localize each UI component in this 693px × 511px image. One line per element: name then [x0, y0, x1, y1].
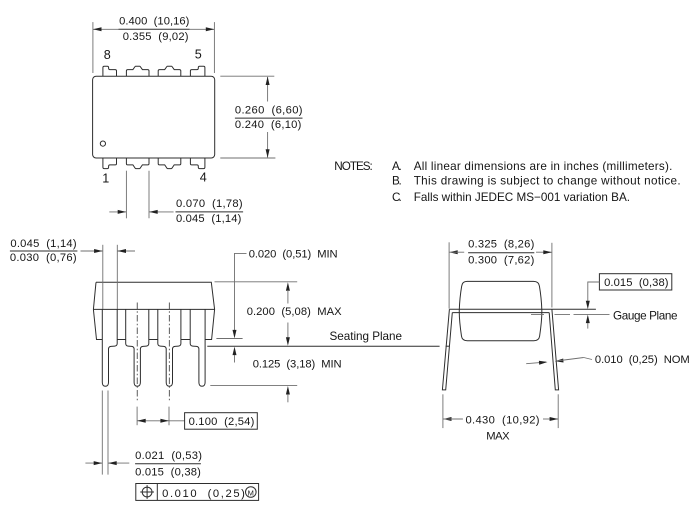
- svg-text:NOTES:: NOTES:: [334, 160, 373, 173]
- svg-text:This drawing is subject to cha: This drawing is subject to change withou…: [414, 175, 681, 188]
- svg-text:0.125 (3,18) MIN: 0.125 (3,18) MIN: [253, 359, 342, 371]
- dimension 0.325/0.300: right extension line: [551, 243, 553, 308]
- dimension 0.200 MAX: package top extension line: [215, 281, 298, 283]
- end view: left lead: [442, 309, 452, 390]
- dimension 0.021/0.015: left dimension line with arrowhead: [85, 462, 102, 464]
- seating plane line: [207, 345, 439, 347]
- dimension 0.400/0.355: right extension line: [213, 22, 215, 73]
- front view: package body outline: [93, 282, 214, 339]
- dimension 0.045/0.030: left dimension line with arrowhead: [81, 250, 103, 252]
- top view: pin-1 index circle: [100, 141, 105, 146]
- top view: pin 5 lead: [190, 66, 205, 76]
- svg-text:0.010 (0,25): 0.010 (0,25): [162, 488, 245, 500]
- dimension 0.430 MAX: left extension line: [442, 394, 444, 428]
- svg-text:1: 1: [102, 172, 109, 186]
- dimension 0.125 MIN: up arrowhead at lead tips: [286, 386, 290, 395]
- front view: body underside segments: [117, 339, 190, 341]
- seating plane tick on lead: [446, 345, 450, 347]
- svg-text:0.015 (0,38): 0.015 (0,38): [135, 466, 201, 478]
- svg-text:0.260 (6,60): 0.260 (6,60): [235, 105, 303, 117]
- dimension 0.200 MAX: up arrowhead with stem: [286, 282, 290, 291]
- front view: pin 3 lead: [158, 309, 181, 386]
- top view: pin 3 lead: [158, 158, 181, 169]
- svg-text:M: M: [248, 488, 254, 497]
- svg-text:4: 4: [200, 170, 207, 184]
- svg-text:Seating Plane: Seating Plane: [330, 330, 403, 343]
- front view: pin 4 lead: [190, 309, 205, 386]
- end view: lead frame bottom line: [452, 312, 549, 314]
- dimension 0.325/0.300: right dimension line with arrowhead: [536, 251, 552, 253]
- svg-text:0.200 (5,08) MAX: 0.200 (5,08) MAX: [247, 306, 342, 318]
- front view: pin 2 lead: [126, 309, 149, 386]
- dimension 0.400/0.355: left arrowhead: [93, 27, 102, 31]
- dimension 0.430 MAX: right extension line: [557, 394, 559, 428]
- dimension 0.260/0.240: top extension line: [220, 75, 274, 77]
- svg-text:0.355 (9,02): 0.355 (9,02): [123, 31, 189, 43]
- end view: right lead: [549, 309, 558, 390]
- top view: pin 2 lead: [126, 158, 149, 169]
- dimension 0.325/0.300: left extension line: [448, 242, 450, 308]
- dimension 0.070/0.045: left dimension line with arrowhead: [109, 211, 126, 213]
- dimension 0.260/0.240: up arrowhead: [266, 77, 270, 86]
- svg-text:0.430 (10,92): 0.430 (10,92): [466, 415, 540, 427]
- front view: pin 3 centerline: [168, 303, 170, 403]
- dimension 0.070/0.045: right extension line: [148, 171, 150, 219]
- dimension 0.400/0.355: right arrowhead: [206, 27, 215, 31]
- svg-text:0.045 (1,14): 0.045 (1,14): [10, 238, 76, 250]
- dimension 0.021/0.015: right extension line: [107, 391, 109, 475]
- svg-text:All linear dimensions are in i: All linear dimensions are in inches (mil…: [414, 160, 673, 173]
- dimension 0.070/0.045: fraction bar: [176, 211, 244, 213]
- top view: pin 1 lead: [103, 158, 117, 169]
- feature control frame: cell divider: [156, 484, 158, 501]
- dimension 0.100: dimension line with outward arrowheads: [137, 420, 184, 422]
- dimension 0.260/0.240: upper dimension line: [267, 77, 269, 102]
- dimension 0.045/0.030: fraction bar: [10, 250, 78, 252]
- dimension 0.010 NOM: inner arrowhead and leader: [555, 359, 564, 363]
- svg-text:0.015 (0,38): 0.015 (0,38): [604, 277, 669, 289]
- feature control frame: M modifier circle: [246, 487, 257, 498]
- svg-text:0.010 (0,25) NOM: 0.010 (0,25) NOM: [595, 354, 690, 366]
- dimension 0.125 MIN: lead tip extension line: [210, 384, 297, 386]
- dimension 0.100: pin 3 extension line: [168, 407, 170, 426]
- svg-text:A.: A.: [392, 160, 402, 173]
- dimension 0.020 MIN: body underside extension line: [216, 338, 242, 340]
- svg-text:C.: C.: [392, 191, 402, 204]
- dimension 0.325/0.300: fraction bar: [468, 252, 534, 254]
- svg-text:0.300 (7,62): 0.300 (7,62): [468, 254, 534, 266]
- dimension 0.260/0.240: fraction bar: [235, 117, 303, 119]
- dimension 0.260/0.240: down arrowhead: [266, 149, 270, 158]
- feature control frame: true position symbol: [142, 487, 152, 497]
- dimension 0.010 NOM: outer arrowhead and leader: [526, 362, 546, 364]
- svg-text:0.030 (0,76): 0.030 (0,76): [10, 252, 77, 264]
- svg-text:Gauge Plane: Gauge Plane: [613, 310, 678, 323]
- front view: pin 1 lead: [102, 309, 117, 386]
- svg-text:0.020 (0,51) MIN: 0.020 (0,51) MIN: [249, 249, 338, 261]
- dimension 0.021/0.015: fraction bar: [135, 463, 201, 465]
- svg-text:0.240 (6,10): 0.240 (6,10): [235, 119, 302, 131]
- dimension 0.015: boxed text frame: [599, 274, 671, 290]
- front view: pin 2 centerline: [136, 303, 138, 403]
- end view: package body outline: [459, 281, 542, 340]
- top view: package body outline: [93, 76, 215, 158]
- dimension 0.100: boxed text frame: [185, 413, 258, 430]
- dimension 0.045/0.030: right dimension line with arrowhead: [118, 250, 136, 252]
- svg-text:0.400 (10,16): 0.400 (10,16): [119, 15, 190, 27]
- dimension 0.430 MAX: left dimension line with arrowhead: [443, 417, 452, 421]
- dimension 0.070/0.045: right dimension line with arrowhead: [149, 211, 173, 213]
- svg-text:0.325 (8,26): 0.325 (8,26): [468, 239, 534, 251]
- dimension 0.100: pin 2 extension line: [136, 407, 138, 426]
- dimension 0.015: up arrowhead at gauge plane: [586, 315, 590, 324]
- svg-text:8: 8: [104, 48, 111, 62]
- dimension 0.325/0.300: left dimension line with arrowhead: [449, 250, 458, 254]
- top view: pin 6 lead: [158, 66, 181, 76]
- dimension 0.400/0.355: dimension line: [93, 28, 119, 30]
- dimension 0.430 MAX: right dimension line with arrowhead: [543, 418, 558, 420]
- dimension 0.400/0.355: left extension line: [92, 22, 94, 73]
- top view: pin 4 lead: [190, 158, 205, 169]
- dimension 0.400/0.355: fraction bar: [119, 28, 190, 30]
- dimension 0.070/0.045: left extension line: [125, 171, 127, 219]
- dimension 0.045/0.030: left extension line: [102, 245, 104, 309]
- dimension 0.021/0.015: left extension line: [101, 391, 103, 475]
- svg-text:0.021 (0,53): 0.021 (0,53): [135, 450, 202, 462]
- dimension 0.015: leader from box: [588, 282, 600, 301]
- dimension 0.015: down arrowhead at lead top: [586, 301, 590, 310]
- feature control frame: outer box: [136, 484, 259, 501]
- top view: pin 7 lead: [126, 66, 149, 76]
- dimension 0.020 MIN: down arrowhead: [233, 330, 237, 339]
- dimension 0.021/0.015: right dimension line with arrowhead: [108, 462, 129, 464]
- svg-text:0.100 (2,54): 0.100 (2,54): [189, 416, 255, 428]
- gauge plane dashed line: [531, 313, 610, 315]
- top view: pin 8 lead: [103, 66, 117, 76]
- end view: lead frame top line: [449, 308, 596, 310]
- dimension 0.200 MAX: down arrowhead with stem: [287, 323, 289, 339]
- svg-text:0.045 (1,14): 0.045 (1,14): [176, 213, 242, 225]
- dimension 0.260/0.240: bottom extension line: [220, 157, 275, 159]
- dimension 0.045/0.030: right extension line: [116, 245, 118, 309]
- svg-text:MAX: MAX: [486, 431, 510, 443]
- svg-text:0.070 (1,78): 0.070 (1,78): [176, 198, 243, 210]
- dimension 0.020 MIN: leader line: [235, 253, 247, 330]
- dimension 0.260/0.240: lower dimension line: [267, 132, 269, 157]
- dimension 0.125 MIN: up arrowhead at seating plane: [233, 347, 237, 356]
- svg-text:5: 5: [195, 47, 202, 61]
- svg-text:B.: B.: [392, 175, 402, 188]
- svg-text:Falls within JEDEC MS−001 vari: Falls within JEDEC MS−001 variation BA.: [414, 191, 630, 204]
